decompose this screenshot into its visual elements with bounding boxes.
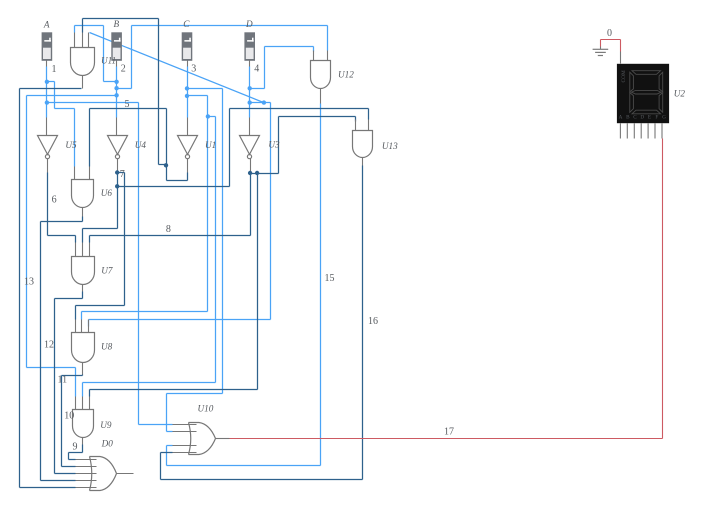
svg-text:7: 7 (120, 169, 125, 180)
svg-text:U10: U10 (198, 403, 214, 413)
svg-text:6: 6 (52, 194, 57, 205)
svg-text:F: F (655, 115, 658, 121)
svg-text:11: 11 (58, 374, 68, 385)
svg-text:U6: U6 (101, 188, 113, 198)
svg-text:U7: U7 (101, 266, 113, 276)
svg-text:2: 2 (121, 64, 126, 75)
svg-text:4: 4 (254, 64, 259, 75)
svg-text:5: 5 (125, 99, 130, 110)
svg-text:16: 16 (368, 316, 378, 327)
svg-text:B: B (114, 19, 120, 29)
svg-text:13: 13 (24, 276, 34, 287)
svg-text:U13: U13 (382, 141, 398, 151)
svg-text:E: E (648, 115, 651, 121)
svg-text:3: 3 (191, 64, 196, 75)
svg-text:U8: U8 (101, 342, 113, 352)
svg-text:U12: U12 (338, 70, 354, 80)
svg-text:U2: U2 (674, 88, 686, 98)
svg-text:U9: U9 (100, 420, 112, 430)
svg-text:G: G (662, 115, 666, 121)
svg-text:10: 10 (64, 410, 74, 421)
svg-text:U4: U4 (135, 140, 147, 150)
svg-text:A: A (43, 19, 50, 29)
svg-text:U1: U1 (205, 140, 216, 150)
svg-text:D: D (245, 19, 253, 29)
svg-text:A: A (619, 115, 623, 121)
svg-text:U5: U5 (65, 140, 77, 150)
svg-text:D: D (640, 115, 644, 121)
svg-text:8: 8 (166, 224, 171, 235)
svg-text:U11: U11 (101, 55, 116, 65)
svg-text:C: C (633, 115, 637, 121)
svg-text:C: C (183, 19, 190, 29)
svg-text:0: 0 (607, 28, 612, 39)
svg-text:B: B (626, 115, 630, 121)
svg-text:9: 9 (73, 442, 78, 453)
svg-text:17: 17 (444, 427, 454, 438)
svg-text:D0: D0 (101, 439, 114, 449)
svg-text:COM: COM (621, 70, 627, 82)
svg-text:12: 12 (44, 340, 54, 351)
svg-text:1: 1 (52, 64, 57, 75)
svg-text:U3: U3 (268, 140, 280, 150)
svg-text:15: 15 (325, 273, 335, 284)
